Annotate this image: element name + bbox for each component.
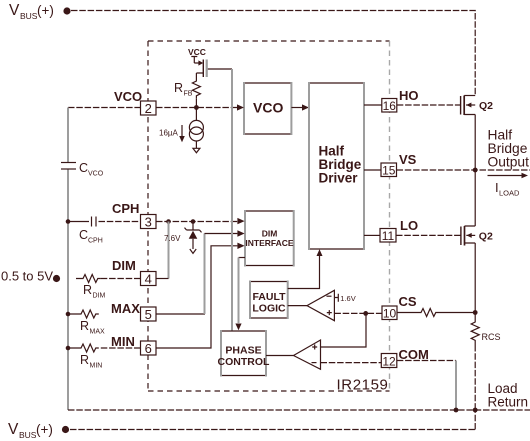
- svg-text:LOGIC: LOGIC: [252, 303, 286, 315]
- wire VS to half bridge output: [397, 169, 530, 171]
- block Half Bridge Driver: [309, 82, 364, 250]
- svg-text:4: 4: [145, 272, 152, 287]
- capacitor CCPH: [79, 217, 103, 245]
- junction VS node: [473, 168, 478, 173]
- zener diode 7.6V: [164, 222, 202, 254]
- op-amp comparator1 (CS fault): [288, 290, 335, 320]
- svg-text:DIM: DIM: [112, 258, 136, 273]
- wire comparator1 + input to CS line: [334, 312, 381, 314]
- block FAULT LOGIC: [250, 281, 288, 320]
- svg-text:CONTROL: CONTROL: [218, 356, 270, 368]
- svg-text:6: 6: [145, 341, 152, 356]
- wire left gray rail: [67, 108, 69, 163]
- svg-text:INTERFACE: INTERFACE: [245, 238, 294, 248]
- svg-text:VCO: VCO: [88, 171, 104, 178]
- junction rail-RMAX: [66, 312, 71, 317]
- wire pin2 VCO row: rail corner to pin2 and pin2 to VCO block: [68, 107, 141, 109]
- transistor internal PMOS: [196, 60, 232, 80]
- wire RCS to load return: [474, 345, 476, 410]
- wire HBD to pin15: [364, 169, 381, 171]
- wire CPH row from rail to capacitor: [68, 221, 89, 223]
- svg-text:5: 5: [145, 307, 152, 322]
- wire COM pin to load return (gray drop): [397, 360, 456, 362]
- svg-text:11: 11: [382, 229, 395, 243]
- node ILOAD arrow: [488, 173, 529, 198]
- svg-text:MAX: MAX: [111, 301, 140, 316]
- resistor RMIN: [68, 344, 102, 370]
- pin 5 box: [141, 307, 157, 322]
- pin 2 box: [141, 101, 157, 116]
- wire arrow MIN into DIM interface: [237, 243, 244, 249]
- svg-text:C: C: [79, 161, 88, 175]
- transistor Q2 lower: [461, 170, 493, 313]
- svg-text:V: V: [8, 421, 19, 438]
- junction pin2 node: [194, 105, 199, 110]
- wire top VBUS rail to upper Q2 drain: [71, 11, 475, 96]
- svg-text:C: C: [79, 228, 88, 242]
- svg-text:DIM: DIM: [262, 229, 278, 239]
- svg-text:FB: FB: [184, 91, 193, 98]
- svg-text:IR2159: IR2159: [337, 377, 389, 394]
- svg-text:Output: Output: [488, 155, 530, 170]
- current source 16uA: [159, 108, 203, 153]
- wire pin5 to DIM interface (right then gray riser up): [156, 313, 205, 315]
- pin 10 box: [382, 306, 397, 321]
- pin 16 box: [382, 99, 397, 114]
- label Half Bridge Output: [488, 128, 530, 170]
- junction CS-RCS node: [473, 310, 478, 315]
- svg-text:16µA: 16µA: [159, 129, 179, 138]
- svg-text:3: 3: [145, 215, 152, 230]
- node 0.5 to 5V input label: [1, 269, 60, 284]
- resistor CS series: [397, 309, 475, 317]
- wire VCO to half bridge driver: [291, 107, 302, 109]
- svg-text:V: V: [9, 2, 20, 19]
- pin 6 box: [141, 341, 157, 356]
- junction RCS-loadreturn: [473, 408, 478, 413]
- svg-text:LOAD: LOAD: [499, 189, 520, 198]
- wire arrow CPH into DIM interface: [237, 218, 244, 224]
- junction CPH-zener: [191, 219, 196, 224]
- svg-text:16: 16: [383, 99, 397, 113]
- junction CS comp node: [363, 311, 368, 316]
- wire HBD to pin11: [364, 234, 380, 236]
- block DIM INTERFACE: [245, 210, 294, 267]
- wire bottom VBUS rail: [70, 410, 475, 430]
- junction rail-CPH: [66, 219, 71, 224]
- svg-text:MAX: MAX: [90, 329, 106, 336]
- wire HO to upper Q2 gate: [397, 104, 461, 106]
- capacitor CVCO: [61, 161, 104, 178]
- wire HBD to pin16: [364, 104, 382, 106]
- svg-text:R: R: [80, 353, 89, 367]
- wire LO to lower Q2 gate: [396, 234, 461, 236]
- resistor RFB: [174, 79, 200, 99]
- pin 11 box: [380, 229, 396, 244]
- wire DIM interface output to phase control: [239, 257, 246, 259]
- resistor RDIM: [76, 275, 106, 300]
- wire CPH capacitor to pin3 and pin3 to DIM interface: [99, 221, 141, 223]
- svg-text:DIM: DIM: [93, 293, 106, 300]
- svg-text:CPH: CPH: [88, 238, 103, 245]
- wire load return rail: [68, 409, 530, 411]
- transistor Q2 upper: [461, 96, 494, 171]
- svg-text:MIN: MIN: [111, 334, 135, 349]
- resistor RMAX: [68, 310, 105, 336]
- label Load Return: [488, 381, 529, 410]
- node VBUS(+) top label: [9, 2, 71, 21]
- pin 3 box: [141, 215, 157, 230]
- svg-text:RCS: RCS: [482, 332, 501, 342]
- wire fault logic to half bridge driver (up arrow): [288, 256, 320, 289]
- wire arrow into VCO: [237, 104, 244, 110]
- wire DIM pin to CPH line (gray riser): [168, 222, 170, 279]
- svg-text:Q2: Q2: [479, 100, 493, 112]
- wire pin6 to DIM interface (right, riser up at x=211): [156, 246, 237, 348]
- svg-text:BUS: BUS: [19, 430, 37, 440]
- junction CPH-DIM: [166, 219, 171, 224]
- svg-text:VCO: VCO: [114, 89, 142, 104]
- IC boundary dashed box IR2159: [148, 40, 390, 42]
- pin 12 box: [381, 354, 397, 369]
- svg-text:Return: Return: [488, 395, 529, 410]
- svg-text:0.5 to 5V: 0.5 to 5V: [1, 269, 53, 284]
- pin 15 box: [381, 163, 397, 178]
- node VBUS(+) bottom label: [8, 421, 69, 440]
- svg-text:VS: VS: [399, 152, 417, 167]
- svg-text:BUS: BUS: [20, 11, 38, 21]
- op-amp comparator2 (phase): [266, 340, 321, 369]
- svg-text:Q2: Q2: [479, 231, 493, 243]
- svg-text:PHASE: PHASE: [225, 345, 261, 357]
- svg-text:FAULT: FAULT: [252, 291, 286, 303]
- block PHASE CONTROL: [218, 330, 270, 377]
- wire PMOS drain gray drop to phase control: [231, 69, 233, 331]
- svg-text:(+): (+): [36, 422, 53, 437]
- svg-text:R: R: [80, 319, 89, 333]
- wire arrow MAX into DIM interface: [237, 230, 244, 236]
- svg-text:10: 10: [383, 307, 397, 321]
- junction COM-loadreturn: [454, 408, 459, 413]
- wire comparator2 - input to COM pin: [321, 362, 382, 364]
- power VCC symbol: [188, 47, 206, 63]
- block VCO: [244, 82, 291, 135]
- svg-text:LO: LO: [400, 218, 418, 233]
- svg-text:HO: HO: [399, 88, 419, 103]
- node 1.6V reference: [334, 294, 355, 303]
- pin 4 box: [141, 272, 157, 287]
- svg-text:7.6V: 7.6V: [164, 234, 181, 243]
- svg-text:Driver: Driver: [319, 171, 359, 186]
- svg-text:R: R: [174, 81, 183, 95]
- svg-text:VCO: VCO: [253, 100, 283, 116]
- wire comparator2 + input riser to CS node: [321, 313, 367, 347]
- svg-text:MIN: MIN: [90, 363, 103, 370]
- svg-text:(+): (+): [37, 3, 54, 18]
- wire RFB to pin2 wire: [195, 99, 197, 108]
- svg-text:CPH: CPH: [112, 201, 139, 216]
- wire RDIM to pin4: [101, 278, 141, 280]
- svg-text:15: 15: [382, 164, 396, 178]
- junction rail-RMIN: [66, 346, 71, 351]
- svg-text:CS: CS: [399, 294, 417, 309]
- svg-text:1.6V: 1.6V: [340, 294, 355, 303]
- svg-text:R: R: [83, 283, 92, 297]
- svg-text:VCC: VCC: [188, 47, 206, 57]
- svg-text:2: 2: [145, 101, 152, 116]
- resistor RCS: [471, 313, 500, 346]
- svg-text:COM: COM: [399, 347, 429, 362]
- wire RMIN to pin6: [101, 347, 141, 349]
- svg-text:12: 12: [382, 355, 396, 369]
